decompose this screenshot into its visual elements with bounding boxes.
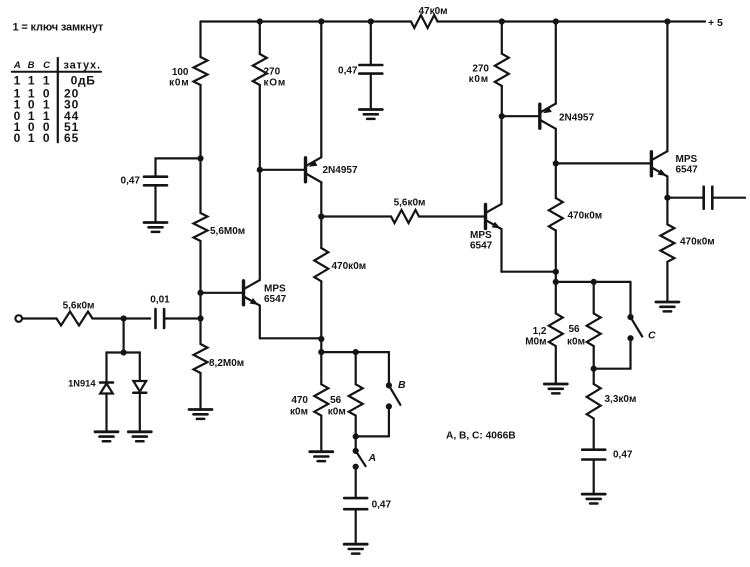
svg-text:1 = ключ замкнут: 1 = ключ замкнут (13, 22, 104, 34)
svg-text:к0м: к0м (328, 406, 346, 417)
svg-text:1,2: 1,2 (533, 326, 547, 337)
svg-text:0,01: 0,01 (150, 295, 170, 306)
svg-text:8,2М0м: 8,2М0м (209, 358, 244, 369)
svg-text:0,47: 0,47 (372, 500, 392, 511)
svg-text:5,6к0м: 5,6к0м (394, 198, 426, 209)
svg-text:кОм: кОм (264, 78, 287, 89)
svg-text:к0м: к0м (290, 406, 308, 417)
svg-text:A: A (368, 452, 377, 464)
svg-text:к0м: к0м (169, 78, 189, 89)
svg-text:6547: 6547 (470, 241, 493, 252)
svg-text:A, B, C: 4066B: A, B, C: 4066B (446, 431, 516, 442)
svg-text:0,47: 0,47 (613, 450, 633, 461)
svg-text:C: C (648, 330, 656, 342)
svg-text:3,3к0м: 3,3к0м (605, 394, 637, 405)
svg-text:470к0м: 470к0м (332, 261, 367, 272)
svg-text:MPS: MPS (264, 284, 286, 295)
svg-text:470: 470 (291, 395, 308, 406)
svg-text:0: 0 (14, 131, 21, 145)
svg-text:6547: 6547 (676, 165, 699, 176)
svg-text:270: 270 (472, 63, 489, 74)
svg-text:к0м: к0м (567, 337, 585, 348)
svg-text:2N4957: 2N4957 (559, 113, 594, 124)
svg-text:MPS: MPS (470, 230, 492, 241)
svg-text:A: A (13, 60, 21, 71)
svg-text:56: 56 (569, 324, 581, 335)
svg-text:470к0м: 470к0м (680, 237, 715, 248)
svg-text:5,6к0м: 5,6к0м (63, 301, 95, 312)
svg-text:B: B (398, 379, 406, 391)
svg-text:5,6М0м: 5,6М0м (210, 226, 245, 237)
svg-text:100: 100 (172, 67, 189, 78)
svg-text:М0м: М0м (525, 337, 546, 348)
svg-text:47к0м: 47к0м (418, 6, 447, 17)
svg-text:B: B (28, 60, 35, 71)
svg-text:470к0м: 470к0м (568, 211, 603, 222)
svg-text:1: 1 (28, 131, 35, 145)
svg-text:затух.: затух. (64, 60, 101, 72)
svg-text:56: 56 (330, 395, 342, 406)
svg-text:к0м: к0м (469, 74, 489, 85)
svg-text:2N4957: 2N4957 (323, 165, 358, 176)
svg-text:65: 65 (64, 131, 79, 145)
svg-text:C: C (43, 60, 50, 71)
svg-text:270: 270 (264, 67, 281, 78)
svg-text:6547: 6547 (264, 294, 287, 305)
svg-text:0,47: 0,47 (338, 66, 358, 77)
svg-text:MPS: MPS (676, 154, 698, 165)
svg-text:0,47: 0,47 (121, 176, 141, 187)
svg-text:1N914: 1N914 (68, 379, 96, 389)
svg-text:0: 0 (43, 131, 50, 145)
svg-text:+ 5: + 5 (708, 17, 723, 29)
